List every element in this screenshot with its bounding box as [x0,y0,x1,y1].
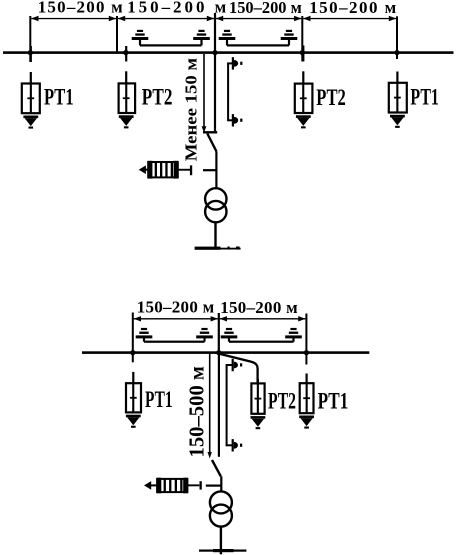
svg-text:РТ1: РТ1 [145,387,173,412]
svg-text:РТ2: РТ2 [316,85,346,111]
svg-text:РТ1: РТ1 [318,389,349,415]
svg-text:РТ2: РТ2 [268,389,296,414]
svg-text:150–500 м: 150–500 м [185,366,209,458]
svg-text:150–200 м: 150–200 м [137,298,215,317]
svg-text:150–200 м: 150–200 м [229,0,302,17]
svg-text:150–200 м: 150–200 м [38,0,123,16]
svg-text:150–200 м: 150–200 м [220,298,298,317]
svg-text:РТ1: РТ1 [44,85,74,111]
svg-text:РТ2: РТ2 [142,84,173,110]
svg-text:РТ1: РТ1 [410,84,439,110]
svg-text:Менее 150 м: Менее 150 м [181,57,200,161]
